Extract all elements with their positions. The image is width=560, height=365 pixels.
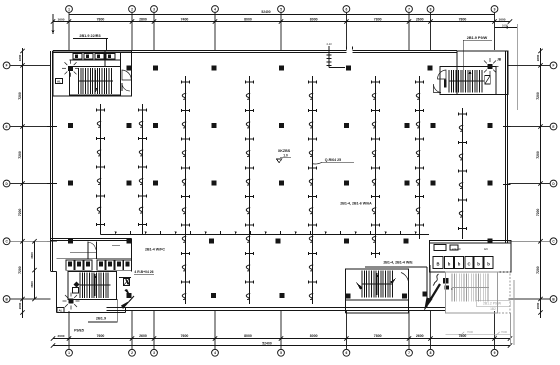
svg-text:3600: 3600	[30, 252, 34, 259]
small boxes top of electrical room	[434, 245, 488, 252]
svg-text:52400: 52400	[262, 341, 272, 345]
lighting circuit run 8 with fixture ticks and break symbols	[458, 108, 466, 239]
stair room top-left walls	[70, 53, 121, 95]
svg-text:2800: 2800	[139, 17, 147, 21]
annotation leader bottom-left to 2B1.9	[88, 299, 117, 322]
svg-text:2B1-4, 2B1-6 W/6A: 2B1-4, 2B1-6 W/6A	[340, 202, 372, 206]
svg-text:2: 2	[131, 7, 133, 11]
svg-text:C: C	[467, 262, 470, 267]
lobby wall right of stair bottom-right	[365, 267, 427, 307]
stair room bottom-left walls	[68, 272, 117, 300]
svg-text:7400: 7400	[181, 17, 189, 21]
stair direction arrow top-left	[94, 70, 97, 92]
top overall dimension 52400	[69, 10, 495, 15]
svg-text:7600: 7600	[181, 334, 189, 338]
annotation 2B1.9 22/R3 top-left	[73, 34, 108, 50]
svg-text:6: 6	[345, 7, 347, 11]
svg-text:P9/E5: P9/E5	[74, 329, 84, 333]
svg-text:5: 5	[280, 7, 282, 11]
svg-text:8: 8	[430, 7, 432, 11]
stair corner columns bottom-right	[346, 294, 408, 299]
svg-text:7800: 7800	[459, 17, 467, 21]
top-right small dimension 1600 with arrow	[495, 23, 518, 110]
svg-text:8000: 8000	[244, 17, 252, 21]
svg-text:7200: 7200	[18, 209, 22, 217]
svg-text:1800: 1800	[18, 54, 22, 61]
svg-text:7600: 7600	[97, 334, 105, 338]
svg-text:2: 2	[131, 351, 133, 355]
fixtures row in tower top-left	[73, 54, 115, 60]
annotation 2B1.9 P9/W top-right with leader	[463, 36, 492, 70]
left dimension line with ticks and values	[18, 48, 25, 318]
svg-text:3: 3	[153, 7, 155, 11]
svg-text:1.0: 1.0	[283, 154, 288, 158]
svg-text:E: E	[552, 125, 554, 129]
stair direction arrow top-right	[469, 70, 472, 91]
wire squiggle in bottom-right lobby	[433, 274, 439, 286]
toilet stalls bottom-left group 1	[66, 260, 92, 270]
svg-text:7200: 7200	[536, 209, 540, 217]
interior structural columns grid	[68, 65, 493, 298]
stair tower top-left outline	[53, 51, 132, 96]
gray annotation 2B1.2 P9/W	[476, 301, 510, 311]
right dimension line with ticks and values	[536, 48, 543, 318]
stair treads top-left	[79, 68, 114, 94]
lighting circuit run 7 with fixture ticks and break symbols	[415, 76, 423, 239]
lighting circuit run 1 with fixture ticks and break symbols	[96, 104, 104, 235]
wall bottom edge	[107, 308, 446, 311]
column with luminaire rays bottom-left	[63, 293, 80, 310]
svg-text:2B1.9: 2B1.9	[96, 317, 106, 321]
svg-text:b: b	[477, 262, 480, 267]
bottom grid extension lines	[69, 311, 495, 349]
svg-text:1: 1	[68, 7, 70, 11]
gray dimension marks under annex	[446, 330, 511, 336]
svg-text:b: b	[487, 262, 490, 267]
svg-text:8000: 8000	[310, 17, 318, 21]
door arc top-left lobby	[122, 70, 131, 80]
stair tower top-right outline	[457, 51, 508, 95]
wall step bottom-left corner	[51, 272, 126, 313]
svg-text:b: b	[458, 262, 461, 267]
svg-text:E9: E9	[484, 247, 488, 251]
svg-text:2600: 2600	[139, 334, 147, 338]
top grid bubbles with column numbers	[66, 6, 498, 13]
big exit arrow bottom-right	[424, 284, 440, 311]
door arc toilet corridor bottom-left	[89, 243, 121, 250]
svg-text:F: F	[553, 64, 555, 68]
svg-text:8: 8	[430, 351, 432, 355]
annotation 2B1-4 W/FC lower-left area	[145, 248, 165, 252]
stair direction arrow bottom-left	[94, 274, 97, 296]
gray annex stair bottom-right	[446, 272, 511, 313]
toilet band bottom-left walls	[51, 238, 132, 271]
label JB near top-right column	[497, 58, 502, 62]
svg-text:7600: 7600	[467, 330, 474, 334]
svg-text:E: E	[6, 125, 8, 129]
right grid bubbles with row letters	[550, 62, 557, 302]
door arc bottom-right stair	[401, 273, 409, 286]
svg-text:2B1.9 22/R3: 2B1.9 22/R3	[79, 34, 100, 38]
top grid extension lines	[69, 12, 495, 50]
column wall marks on right edge	[488, 123, 511, 244]
svg-text:4: 4	[214, 7, 216, 11]
lighting circuit run 2 with fixture ticks and break symbols	[138, 104, 146, 235]
lobby wall bottom-right at x430	[429, 265, 431, 300]
door arc top-right lobby	[433, 70, 446, 93]
svg-text:7200: 7200	[18, 92, 22, 100]
panel box label left of tower	[56, 79, 63, 84]
svg-text:3: 3	[153, 351, 155, 355]
svg-text:XKZBS: XKZBS	[278, 149, 291, 153]
svg-text:7200: 7200	[536, 266, 540, 274]
svg-text:9: 9	[494, 7, 496, 11]
column with luminaire rays top-right	[482, 58, 499, 75]
diamond luminaire in stair bottom-left	[73, 282, 80, 294]
svg-text:1600: 1600	[58, 17, 65, 21]
left grid bubbles with row letters	[3, 62, 10, 302]
svg-text:F: F	[6, 64, 8, 68]
left grid extension lines	[10, 65, 51, 299]
exit arrows bottom-right stair	[356, 278, 396, 289]
stair treads bottom-right	[362, 271, 393, 298]
bottom grid bubbles with column numbers	[66, 349, 498, 356]
svg-text:3600: 3600	[30, 281, 34, 288]
svg-text:7200: 7200	[536, 151, 540, 159]
horizontal lighting circuit run with fixture ticks	[101, 231, 430, 235]
svg-text:b: b	[448, 262, 451, 267]
lighting circuit run 3 with fixture ticks and break symbols	[181, 76, 189, 304]
lighting circuit run 5 with fixture ticks and break symbols	[308, 76, 316, 304]
svg-text:4 R.B+04 26: 4 R.B+04 26	[134, 270, 153, 274]
svg-text:7200: 7200	[18, 151, 22, 159]
svg-text:2B1.2 P9/W: 2B1.2 P9/W	[483, 302, 502, 306]
stair treads bottom-left	[80, 273, 111, 299]
svg-text:AL: AL	[59, 309, 63, 313]
wall top edge	[53, 51, 457, 53]
bottom dimension line with ticks and values	[51, 334, 512, 341]
svg-text:52400: 52400	[261, 10, 270, 14]
lighting circuit run 6 with fixture ticks and break symbols	[371, 76, 379, 258]
svg-text:2B1.9 P9/W: 2B1.9 P9/W	[467, 36, 488, 40]
svg-text:7600: 7600	[501, 330, 508, 334]
big exit arrow bottom-left crossing wall	[121, 296, 134, 309]
small equipment boxes bottom-right	[423, 278, 454, 297]
wall left edge	[51, 51, 53, 272]
svg-text:9: 9	[494, 351, 496, 355]
panel box label below bottom-left tower	[57, 308, 64, 313]
svg-text:Q.R/64 25: Q.R/64 25	[325, 158, 341, 162]
lighting circuit run 4 with fixture ticks and break symbols	[245, 76, 253, 304]
column wall marks on left edge	[47, 127, 57, 242]
stair room bottom-right walls	[346, 269, 409, 313]
right grid extension lines	[509, 65, 551, 299]
stair room top-right walls	[440, 66, 496, 94]
door arc top-left second	[122, 83, 130, 91]
svg-text:4: 4	[214, 351, 216, 355]
gray annex extension lines to bottom dimension	[511, 280, 515, 345]
stair direction arrow bottom-right	[376, 273, 379, 295]
svg-text:7800: 7800	[97, 17, 105, 21]
svg-text:2000: 2000	[536, 302, 540, 309]
annotation Q.R/64 25 with leader hook	[312, 158, 354, 164]
annotation P9/E5 bottom-left	[74, 329, 84, 333]
svg-text:7800: 7800	[459, 334, 467, 338]
exit arrows bottom-left lobby	[119, 276, 131, 297]
svg-text:1: 1	[68, 351, 70, 355]
svg-text:7800: 7800	[374, 334, 382, 338]
svg-text:7: 7	[408, 7, 410, 11]
svg-text:1600: 1600	[499, 17, 506, 21]
left edge vertical start line of top dimension	[52, 14, 55, 34]
svg-text:8000: 8000	[310, 334, 318, 338]
svg-text:2000: 2000	[18, 302, 22, 309]
annotation 2B1-4 W/6A mid-right	[340, 202, 372, 206]
toilet stalls bottom-left group 2	[97, 260, 132, 270]
annotation 2B1-4 2B1-4 W/E bottom-right	[383, 260, 413, 264]
svg-text:6: 6	[345, 351, 347, 355]
panel box right of stair bottom-left	[124, 279, 130, 286]
svg-text:2600: 2600	[416, 17, 424, 21]
svg-text:7: 7	[408, 351, 410, 355]
svg-text:8000: 8000	[244, 334, 252, 338]
left inner sub-dimension 3600 3600	[30, 239, 37, 301]
door opening break in top wall	[347, 47, 353, 54]
svg-text:2600: 2600	[416, 334, 424, 338]
svg-text:JB: JB	[497, 58, 502, 62]
electrical rooms bottom-right outline	[430, 240, 512, 272]
svg-text:7800: 7800	[374, 17, 382, 21]
annotation fire control room center	[276, 149, 291, 163]
door leaf marks top-right lobby	[444, 80, 447, 88]
column with luminaire rays top-left	[62, 60, 79, 77]
svg-text:B: B	[436, 262, 439, 267]
svg-text:2B1-4 W/FC: 2B1-4 W/FC	[145, 248, 165, 252]
stair treads top-right	[449, 70, 484, 93]
svg-text:2800: 2800	[536, 54, 540, 61]
svg-text:AL: AL	[57, 80, 61, 84]
panel row bottom-right	[433, 257, 493, 269]
svg-text:5: 5	[280, 351, 282, 355]
wall right edge	[506, 51, 508, 243]
svg-text:4 R-CF: 4 R-CF	[452, 247, 461, 251]
svg-text:1B2: 1B2	[490, 307, 496, 311]
top dimension line with ticks and values	[51, 17, 512, 23]
svg-text:7200: 7200	[18, 266, 22, 274]
svg-text:4-13: 4-13	[326, 42, 332, 46]
riser leader at top center with hash marks	[326, 42, 345, 68]
bottom overall dimension line 52400	[51, 341, 512, 347]
svg-text:7200: 7200	[536, 92, 540, 100]
annotation 4 R.B+04 26 lower-left area	[134, 270, 154, 274]
svg-text:2000: 2000	[58, 334, 65, 338]
panel symbol right of stairs top-right	[485, 76, 491, 85]
svg-text:2B1-4, 2B1-4 W/E: 2B1-4, 2B1-4 W/E	[383, 260, 413, 264]
